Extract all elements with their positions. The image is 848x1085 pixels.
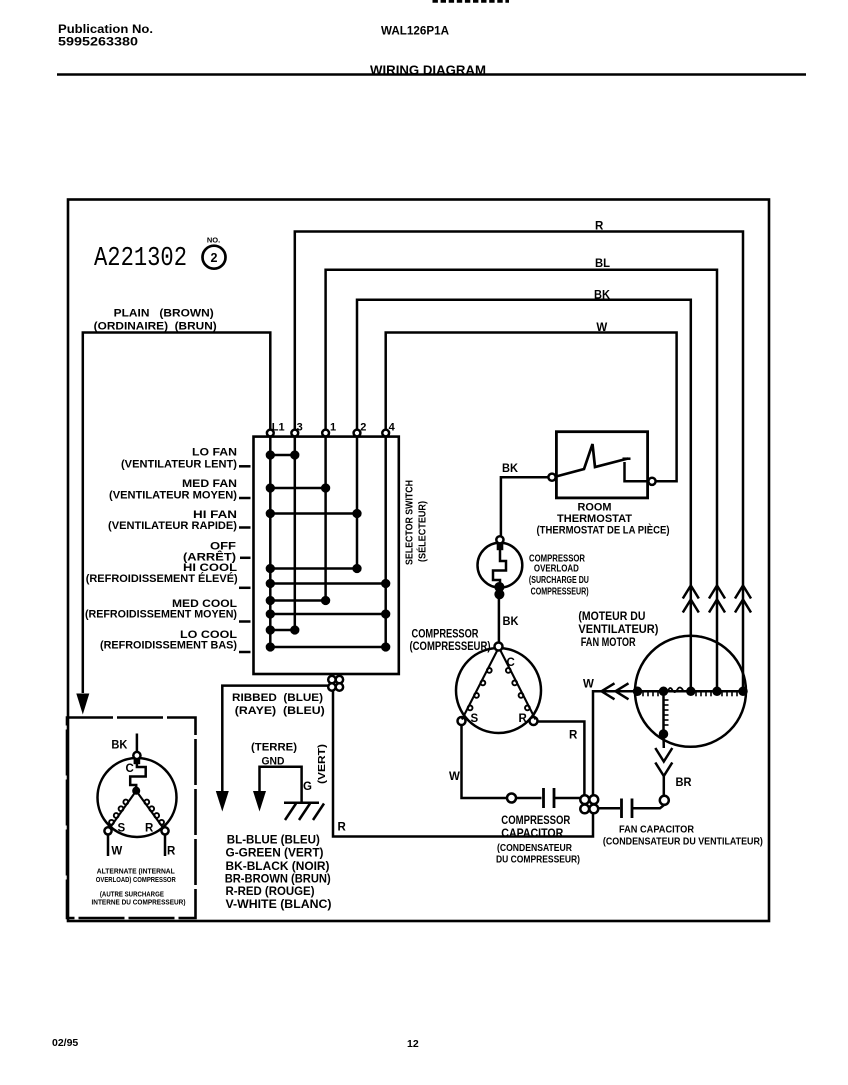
- svg-text:L1: L1: [272, 422, 285, 434]
- label MOTEUR DU VENTILATEUR FAN MOTOR: [578, 611, 658, 649]
- wire R compressor R to cluster: [538, 722, 585, 796]
- connector chevrons on R wire at fan motor: [735, 586, 751, 613]
- compressor capacitor: [507, 788, 580, 808]
- arrow on ribbed wire: [216, 791, 229, 812]
- svg-text:DU COMPRESSEUR): DU COMPRESSEUR): [496, 854, 580, 866]
- svg-text:RIBBED (BLUE): RIBBED (BLUE): [232, 692, 323, 704]
- row LO COOL comp L1-4: [267, 644, 389, 651]
- svg-text:12: 12: [407, 1038, 419, 1050]
- alternate compressor lead BK: [136, 734, 139, 753]
- connector chevrons on BK wire at fan motor: [683, 586, 699, 613]
- svg-text:OVERLOAD) COMPRESSOR: OVERLOAD) COMPRESSOR: [96, 875, 176, 884]
- svg-text:5995263380: 5995263380: [58, 37, 138, 49]
- selector label tick HI COOL: [239, 587, 251, 590]
- terminal L1: [267, 430, 274, 437]
- svg-text:THERMOSTAT: THERMOSTAT: [557, 513, 632, 525]
- svg-text:BL: BL: [595, 258, 610, 270]
- header horizontal rule: [57, 73, 806, 76]
- label R wire: [595, 221, 604, 233]
- colour legend: [225, 833, 332, 912]
- compressor overload circle: [478, 536, 523, 598]
- label W wire: [596, 322, 607, 334]
- svg-text:1: 1: [330, 422, 336, 434]
- wire PLAIN brown supply: [83, 333, 270, 694]
- svg-text:NO.: NO.: [207, 236, 220, 245]
- svg-text:(REFROIDISSEMENT ÉLEVÉ): (REFROIDISSEMENT ÉLEVÉ): [86, 572, 238, 585]
- wire ribbed blue from selector cluster: [222, 686, 328, 792]
- svg-text:2: 2: [360, 422, 366, 434]
- wire BR fan motor to fan capacitor: [662, 734, 665, 796]
- svg-text:BK: BK: [594, 290, 611, 302]
- label C S R compressor pins: [471, 657, 528, 725]
- label BR: [676, 777, 693, 789]
- svg-text:(SÉLECTEUR): (SÉLECTEUR): [416, 501, 429, 562]
- svg-text:R: R: [338, 822, 347, 834]
- wire BL (terminal 1 to fan motor): [326, 270, 717, 688]
- svg-text:R: R: [595, 221, 604, 233]
- terminal 4: [382, 430, 389, 437]
- label (VERT) vertical: [316, 744, 328, 784]
- svg-text:W: W: [111, 846, 122, 858]
- svg-text:COMPRESSOR: COMPRESSOR: [501, 813, 570, 827]
- svg-text:(VENTILATEUR LENT): (VENTILATEUR LENT): [121, 459, 237, 471]
- terminal 3: [291, 430, 298, 437]
- svg-text:Publication No.: Publication No.: [58, 24, 153, 36]
- svg-text:R: R: [569, 730, 578, 742]
- part number A221302: [94, 244, 187, 274]
- svg-text:(RAYE) (BLEU): (RAYE) (BLEU): [235, 705, 325, 717]
- svg-text:(VERT): (VERT): [316, 744, 328, 784]
- label R on bottom wire: [338, 822, 347, 834]
- wire green ground from selector cluster down: [333, 691, 593, 837]
- svg-text:S: S: [118, 823, 126, 835]
- svg-text:W: W: [449, 771, 460, 783]
- svg-text:4: 4: [389, 422, 396, 434]
- svg-text:COMPRESSEUR): COMPRESSEUR): [531, 586, 589, 597]
- svg-text:(REFROIDISSEMENT BAS): (REFROIDISSEMENT BAS): [100, 640, 237, 652]
- alternate winding to R: [138, 793, 165, 831]
- svg-text:LO FAN: LO FAN: [192, 447, 237, 459]
- alternate lead W: [107, 835, 110, 857]
- svg-text:COMPRESSOR: COMPRESSOR: [412, 629, 480, 641]
- alternate S terminal: [104, 827, 111, 834]
- diagram border frame: [68, 200, 769, 922]
- svg-text:FAN MOTOR: FAN MOTOR: [581, 637, 637, 649]
- capacitor junction cluster: [580, 795, 598, 813]
- selector internal vertical 3: [294, 436, 297, 630]
- svg-text:(ORDINAIRE) (BRUN): (ORDINAIRE) (BRUN): [94, 321, 217, 333]
- label BK near compressor: [503, 616, 520, 628]
- alternate compressor dashed box: [67, 718, 196, 919]
- earth ground symbol: [284, 803, 324, 820]
- fan motor circle: [635, 636, 746, 747]
- svg-text:(SURCHARGE DU: (SURCHARGE DU: [529, 575, 589, 586]
- room thermostat box: [556, 432, 647, 498]
- compressor winding C-R: [500, 650, 535, 720]
- selector internal vertical 1: [324, 436, 327, 600]
- svg-text:V-WHITE (BLANC): V-WHITE (BLANC): [226, 897, 332, 911]
- selector switch box: [254, 437, 399, 674]
- svg-text:INTERNE DU COMPRESSEUR): INTERNE DU COMPRESSEUR): [92, 898, 186, 907]
- label COMPRESSOR OVERLOAD: [529, 554, 589, 598]
- chevrons BR pointing down: [655, 748, 672, 776]
- footer page number 12: [407, 1038, 419, 1050]
- svg-text:(VENTILATEUR MOYEN): (VENTILATEUR MOYEN): [109, 490, 237, 502]
- label PLAIN (BROWN): [94, 308, 217, 333]
- wire BK (terminal 2 to fan motor): [357, 300, 691, 688]
- label BL wire: [595, 258, 610, 270]
- svg-text:(MOTEUR DU: (MOTEUR DU: [578, 611, 645, 623]
- label W on S wire: [449, 771, 460, 783]
- svg-text:SELECTOR SWITCH: SELECTOR SWITCH: [404, 480, 416, 565]
- terminal 2: [354, 430, 361, 437]
- svg-text:(THERMOSTAT DE LA PIÈCE): (THERMOSTAT DE LA PIÈCE): [537, 524, 670, 537]
- selector internal vertical L1: [269, 436, 272, 647]
- wire BK thermostat to overload: [501, 477, 549, 536]
- label COMPRESSOR (COMPRESSEUR): [410, 629, 491, 653]
- wire W (terminal 4 to room thermostat): [386, 333, 677, 482]
- selector position labels left: [85, 447, 238, 652]
- svg-text:ROOM: ROOM: [578, 502, 612, 514]
- selector label tick MED FAN: [239, 497, 251, 500]
- row HI COOL comp L1-4: [267, 580, 389, 587]
- svg-text:(COMPRESSEUR): (COMPRESSEUR): [410, 641, 491, 653]
- svg-text:(CONDENSATEUR DU VENTILATEUR): (CONDENSATEUR DU VENTILATEUR): [603, 836, 763, 848]
- label CONDENSATEUR DU COMPRESSEUR: [496, 842, 580, 866]
- alternate compressor circle with internal overload: [98, 752, 177, 837]
- label COMPRESSOR CAPACITOR: [501, 813, 570, 840]
- label ALTERNATE INTERNAL OVERLOAD COMPRESSOR: [92, 867, 186, 907]
- svg-text:BR: BR: [676, 777, 693, 789]
- chevrons W at fan motor pointing left: [602, 683, 629, 699]
- svg-text:PLAIN (BROWN): PLAIN (BROWN): [114, 308, 214, 320]
- svg-text:C: C: [507, 657, 515, 669]
- svg-text:FAN CAPACITOR: FAN CAPACITOR: [619, 824, 694, 836]
- row LO COOL fan L1-3: [267, 627, 298, 634]
- svg-text:R: R: [167, 846, 176, 858]
- wire W cluster to fan motor: [593, 691, 636, 795]
- header title WIRING DIAGRAM: [370, 63, 486, 78]
- label BK alternate: [111, 740, 128, 752]
- label BK wire: [594, 290, 611, 302]
- footer date 02/95: [52, 1037, 78, 1049]
- alternate winding to S: [108, 793, 135, 831]
- svg-text:BK: BK: [502, 463, 519, 475]
- svg-text:R-RED (ROUGE): R-RED (ROUGE): [226, 884, 315, 898]
- svg-text:2: 2: [211, 251, 218, 265]
- svg-text:W: W: [596, 322, 607, 334]
- svg-text:OVERLOAD: OVERLOAD: [534, 563, 579, 574]
- terminal labels L1 3 1 2 4: [272, 422, 396, 434]
- row LO FAN L1-3: [267, 452, 298, 459]
- svg-text:BK: BK: [111, 740, 128, 752]
- terminal 1: [322, 430, 329, 437]
- svg-text:(TERRE): (TERRE): [251, 742, 297, 754]
- compressor winding C-S: [462, 650, 498, 720]
- svg-text:3: 3: [297, 422, 303, 434]
- selector bottom connector cluster: [328, 676, 343, 691]
- label FAN CAPACITOR: [603, 824, 763, 848]
- selector label tick HI FAN: [239, 526, 251, 529]
- header publication number text: [58, 24, 153, 49]
- selector label tick MED COOL: [239, 620, 251, 623]
- fan motor BR tap winding: [660, 691, 669, 737]
- label SELECTOR SWITCH vertical: [404, 480, 429, 565]
- svg-text:02/95: 02/95: [52, 1037, 78, 1049]
- wire W compressor S to capacitor: [462, 725, 508, 798]
- svg-text:(VENTILATEUR RAPIDE): (VENTILATEUR RAPIDE): [108, 520, 237, 532]
- alternate R terminal: [161, 827, 168, 834]
- thermostat switch arm and bimetal: [556, 444, 648, 481]
- selector label tick OFF: [240, 557, 251, 560]
- thermostat right terminal: [648, 478, 655, 485]
- svg-text:G: G: [303, 781, 312, 793]
- label BK near thermostat: [502, 463, 519, 475]
- label RIBBED (BLUE): [232, 692, 325, 717]
- svg-text:VENTILATEUR): VENTILATEUR): [578, 624, 658, 636]
- arrow on ground bracket left leg: [253, 791, 266, 812]
- labels W R alternate leads: [111, 846, 176, 858]
- fan motor winding line with taps: [634, 688, 747, 697]
- labels C S R alternate: [118, 763, 155, 835]
- svg-text:(REFROIDISSEMENT MOYEN): (REFROIDISSEMENT MOYEN): [85, 609, 237, 621]
- row MED FAN L1-1: [267, 485, 329, 492]
- svg-text:W: W: [583, 679, 594, 691]
- svg-text:(CONDENSATEUR: (CONDENSATEUR: [497, 842, 572, 854]
- arrow on PLAIN wire into alternate compressor box: [76, 694, 89, 715]
- label (TERRE) GND: [251, 742, 297, 768]
- svg-text:WAL126P1A: WAL126P1A: [381, 26, 449, 38]
- svg-text:MED FAN: MED FAN: [182, 478, 237, 490]
- svg-text:C: C: [126, 763, 134, 775]
- note badge circled 2: [203, 236, 226, 269]
- label G: [303, 781, 312, 793]
- row HI COOL fan L1-2: [267, 565, 361, 572]
- svg-text:S: S: [471, 713, 479, 725]
- svg-text:G-GREEN (VERT): G-GREEN (VERT): [226, 846, 324, 860]
- svg-text:A221302: A221302: [94, 244, 187, 274]
- selector label tick LO COOL: [239, 651, 251, 654]
- ground bracket wires: [260, 767, 302, 803]
- selector internal vertical 2: [356, 436, 359, 568]
- svg-text:CAPACITOR: CAPACITOR: [501, 826, 563, 840]
- connector chevrons on BL wire at fan motor: [709, 586, 725, 613]
- top dashed trim line: [433, 0, 510, 3]
- label W at fan motor: [583, 679, 594, 691]
- svg-text:R: R: [145, 823, 154, 835]
- fan capacitor: [598, 796, 669, 818]
- selector label tick LO FAN: [239, 465, 251, 468]
- compressor circle: [456, 643, 541, 734]
- header model number WAL126P1A: [381, 26, 449, 38]
- wire BK overload to compressor: [498, 594, 501, 643]
- wire R (terminal 3 to fan motor): [295, 232, 743, 689]
- row HI FAN L1-2: [267, 510, 361, 517]
- svg-text:BK: BK: [503, 616, 520, 628]
- svg-text:GND: GND: [262, 756, 285, 768]
- row MED COOL comp L1-4: [267, 611, 389, 618]
- label R on R wire: [569, 730, 578, 742]
- row MED COOL fan L1-1: [267, 597, 329, 604]
- selector internal vertical 4: [384, 436, 387, 647]
- svg-text:R: R: [519, 713, 528, 725]
- label ROOM THERMOSTAT: [537, 502, 670, 537]
- svg-text:BL-BLUE (BLEU): BL-BLUE (BLEU): [227, 833, 320, 847]
- thermostat left terminal: [548, 474, 555, 481]
- alternate lead R: [164, 835, 167, 857]
